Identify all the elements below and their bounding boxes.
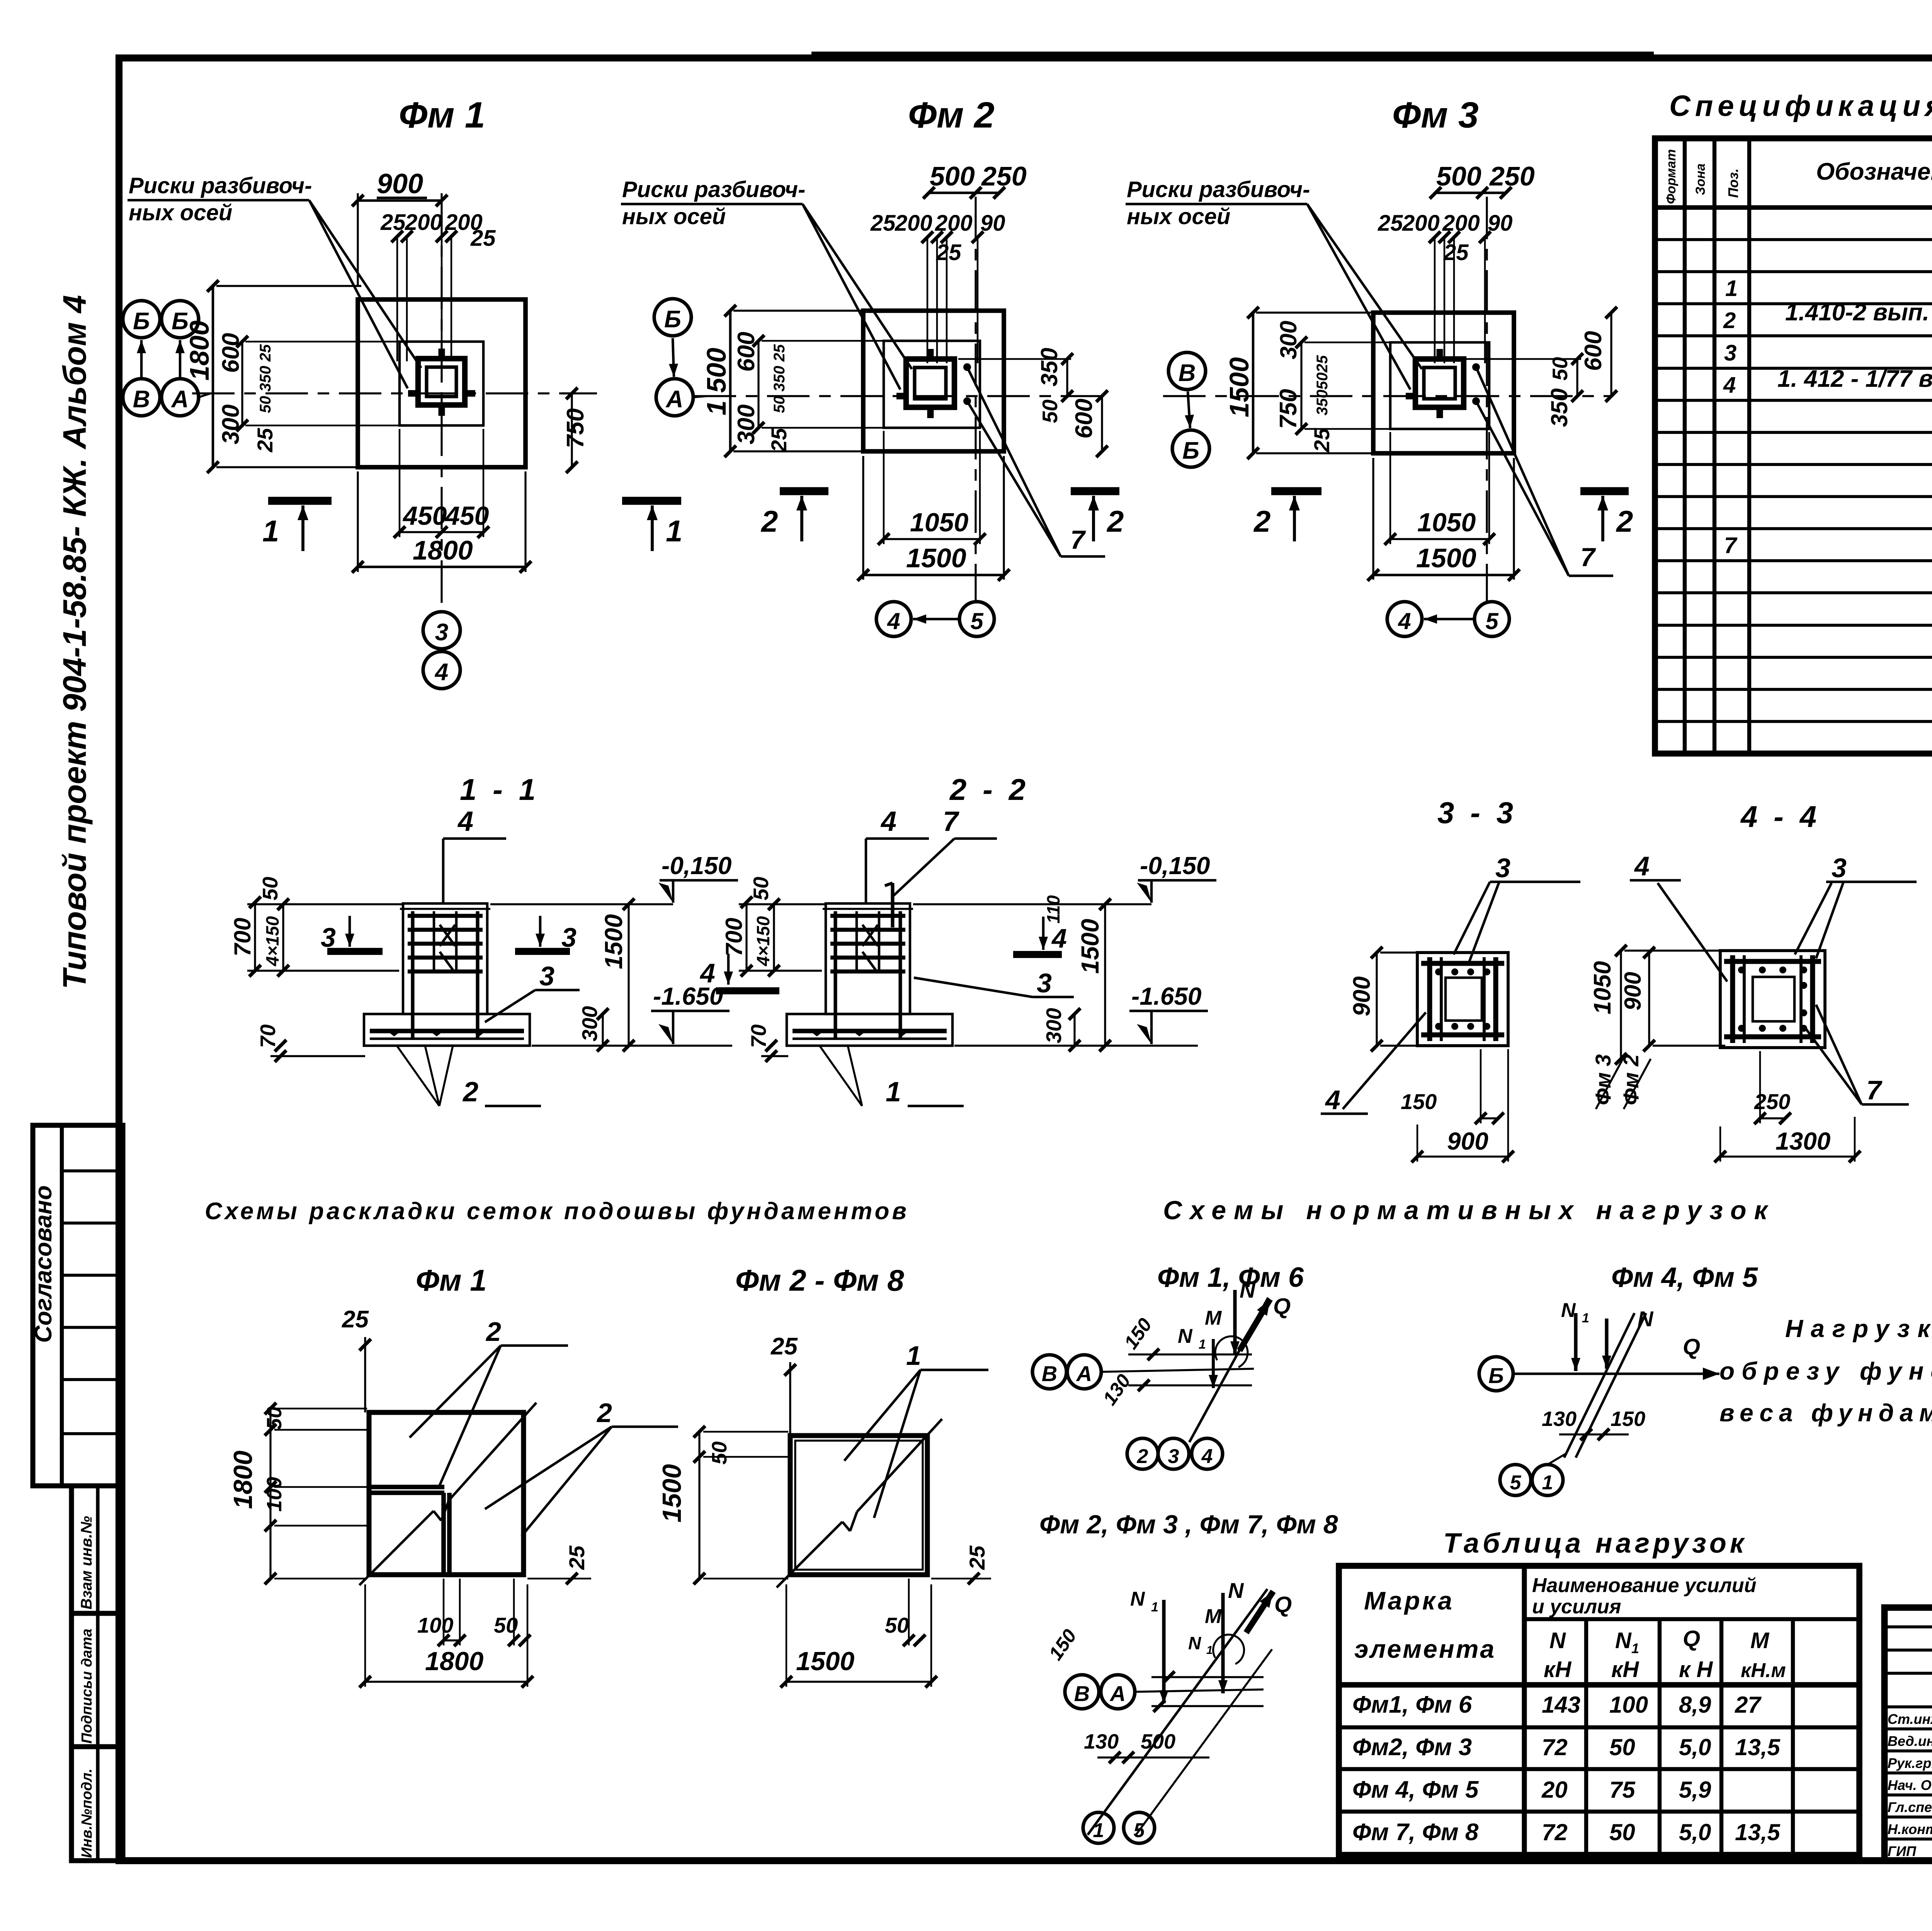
svg-text:-0,150: -0,150 [662,852,731,880]
svg-text:5: 5 [1485,608,1499,634]
svg-text:5,9: 5,9 [1679,1777,1711,1803]
svg-text:3: 3 [1724,340,1736,366]
svg-text:обрезу фундамента без учета: обрезу фундамента без учета нагрузок на … [1719,1357,1932,1385]
svg-text:25: 25 [1443,240,1469,265]
svg-text:7: 7 [1580,543,1596,572]
svg-text:Взам инв.№: Взам инв.№ [78,1516,95,1609]
svg-text:Наименование усилий: Наименование усилий [1532,1574,1756,1597]
svg-text:600: 600 [1071,399,1097,439]
svg-text:Б: Б [664,306,681,333]
svg-text:N: N [1561,1299,1576,1322]
svg-text:50 350 25: 50 350 25 [771,344,788,413]
svg-text:7: 7 [943,806,959,837]
svg-text:1: 1 [1206,1644,1213,1657]
svg-text:Схемы раскладки сеток подо: Схемы раскладки сеток подошвы фундаменто… [205,1198,909,1225]
svg-text:Б: Б [1182,437,1199,464]
svg-text:600: 600 [218,333,244,373]
svg-text:5: 5 [970,608,984,634]
svg-text:Q: Q [1274,1592,1292,1617]
svg-text:1500: 1500 [657,1464,687,1523]
svg-text:90: 90 [980,211,1005,236]
svg-text:M: M [1205,1307,1222,1329]
svg-text:3: 3 [1832,853,1847,883]
svg-text:ных осей: ных осей [129,200,232,225]
svg-text:1050: 1050 [910,508,968,537]
svg-text:250: 250 [1489,161,1535,191]
svg-text:1050: 1050 [1417,508,1476,537]
svg-text:Обозначение: Обозначение [1816,158,1932,185]
svg-text:75: 75 [1609,1777,1636,1803]
svg-text:70: 70 [747,1024,770,1048]
svg-text:1800: 1800 [184,320,214,381]
svg-text:1 - 1: 1 - 1 [460,772,539,806]
svg-text:3: 3 [1037,968,1052,998]
svg-text:900: 900 [377,168,423,199]
svg-text:В: В [1074,1681,1090,1706]
svg-text:Q: Q [1273,1294,1291,1319]
svg-text:к Н: к Н [1679,1657,1713,1682]
svg-text:1: 1 [886,1077,901,1108]
svg-text:А: А [171,386,189,413]
svg-text:Н.контр.: Н.контр. [1888,1821,1932,1837]
svg-text:А: А [1109,1681,1126,1706]
svg-text:Инв.№подл.: Инв.№подл. [79,1769,95,1858]
svg-text:ных осей: ных осей [622,204,726,229]
svg-text:1300: 1300 [1776,1127,1830,1155]
svg-text:900: 900 [1349,977,1375,1016]
svg-text:В: В [133,386,150,413]
svg-text:Б: Б [133,308,150,335]
svg-text:7: 7 [1070,525,1086,555]
svg-text:ных осей: ных осей [1127,204,1230,229]
svg-text:Риски разбивоч-: Риски разбивоч- [622,177,805,202]
svg-text:900: 900 [1447,1127,1488,1155]
svg-text:Вед.инж: Вед.инж [1888,1733,1932,1749]
svg-text:150: 150 [1611,1407,1645,1431]
svg-text:4: 4 [457,806,473,837]
svg-text:13,5: 13,5 [1735,1819,1781,1845]
svg-text:20: 20 [1541,1777,1568,1803]
svg-text:7: 7 [1724,533,1738,558]
svg-text:50: 50 [258,876,282,900]
svg-text:200: 200 [895,211,932,236]
svg-text:4: 4 [1201,1445,1213,1468]
svg-text:Схемы нормативных нагруз: Схемы нормативных нагрузок [1163,1196,1775,1225]
svg-text:1: 1 [666,514,682,548]
svg-text:Нач. ОСП-1: Нач. ОСП-1 [1888,1777,1932,1793]
svg-text:1: 1 [906,1341,921,1371]
svg-text:8,9: 8,9 [1679,1692,1711,1718]
svg-text:Рук.гр.: Рук.гр. [1888,1755,1932,1771]
svg-text:1: 1 [1542,1472,1553,1494]
svg-text:3 - 3: 3 - 3 [1437,796,1517,830]
svg-text:1500: 1500 [1416,543,1476,573]
svg-text:143: 143 [1542,1692,1580,1718]
svg-text:Фм 2, Фм 3 , Фм 7, Фм 8: Фм 2, Фм 3 , Фм 7, Фм 8 [1039,1510,1338,1539]
svg-text:600: 600 [1580,331,1607,371]
svg-text:Подписьи дата: Подписьи дата [79,1629,95,1744]
svg-text:Фм 4, Фм 5: Фм 4, Фм 5 [1352,1776,1479,1803]
svg-text:50: 50 [1609,1734,1635,1760]
svg-text:50: 50 [1038,399,1062,423]
svg-text:M: M [1205,1605,1222,1628]
svg-text:ГИП: ГИП [1888,1843,1917,1859]
svg-text:2: 2 [596,1398,612,1428]
svg-text:25: 25 [936,240,961,265]
svg-text:Ст.инж.: Ст.инж. [1888,1711,1932,1727]
svg-text:веса фундамента и грунта н: веса фундамента и грунта на его уступах. [1719,1399,1932,1427]
svg-text:Фм 1: Фм 1 [399,95,485,136]
svg-text:25: 25 [342,1306,369,1333]
svg-text:4: 4 [699,958,715,988]
svg-text:4: 4 [887,608,900,634]
svg-text:5: 5 [1134,1819,1145,1842]
svg-text:3505025: 3505025 [1314,355,1331,415]
svg-text:Фм 2 - Фм 8: Фм 2 - Фм 8 [735,1263,904,1297]
svg-text:300: 300 [1042,1008,1066,1043]
svg-text:N: N [1240,1278,1256,1302]
svg-text:кН.м: кН.м [1741,1659,1786,1682]
svg-text:Формат: Формат [1664,149,1679,204]
svg-text:Гл.спец.т.о.: Гл.спец.т.о. [1888,1799,1932,1815]
svg-text:50: 50 [885,1613,909,1637]
svg-text:1800: 1800 [228,1451,258,1509]
svg-text:700: 700 [721,918,747,956]
svg-text:700: 700 [230,918,255,956]
svg-text:1050: 1050 [1589,961,1616,1014]
svg-text:25: 25 [770,1333,798,1360]
svg-text:2: 2 [1723,308,1736,333]
svg-text:25: 25 [253,428,277,453]
svg-text:3: 3 [1168,1445,1179,1468]
svg-text:N: N [1549,1628,1566,1653]
svg-text:900: 900 [1620,972,1646,1011]
svg-text:M: M [1750,1628,1770,1653]
svg-text:1800: 1800 [413,535,473,565]
svg-text:1: 1 [1093,1819,1104,1842]
svg-text:2: 2 [462,1077,478,1108]
svg-text:50: 50 [1548,357,1572,381]
svg-text:300: 300 [1276,321,1301,359]
svg-text:25: 25 [965,1545,989,1570]
svg-text:450: 450 [444,501,489,531]
svg-text:3: 3 [1495,853,1510,883]
svg-text:2: 2 [485,1317,501,1347]
svg-text:25: 25 [870,211,896,236]
svg-text:72: 72 [1542,1819,1568,1845]
svg-text:1: 1 [1725,276,1738,301]
svg-text:Q: Q [1683,1626,1700,1651]
svg-text:750: 750 [562,408,589,448]
svg-text:Фм2, Фм 3: Фм2, Фм 3 [1352,1734,1472,1761]
svg-text:4: 4 [1325,1085,1340,1115]
svg-text:13,5: 13,5 [1735,1734,1781,1760]
svg-text:25: 25 [1310,428,1334,453]
svg-text:-1.650: -1.650 [1131,982,1201,1010]
svg-text:Поз.: Поз. [1725,168,1741,198]
svg-text:2: 2 [1253,504,1270,538]
svg-text:500: 500 [930,161,975,191]
svg-text:1500: 1500 [1076,919,1104,974]
svg-text:2: 2 [1616,504,1633,538]
svg-text:50 350 25: 50 350 25 [257,344,274,413]
svg-text:N: N [1188,1633,1201,1653]
svg-text:2: 2 [760,504,778,538]
svg-text:А: А [665,386,684,413]
svg-text:Б: Б [1488,1363,1504,1388]
svg-text:600: 600 [733,332,760,372]
svg-text:-0,150: -0,150 [1140,852,1210,880]
svg-text:450: 450 [402,501,447,531]
svg-text:1: 1 [262,514,279,548]
svg-text:Фм 1, Фм 6: Фм 1, Фм 6 [1157,1262,1304,1293]
svg-text:Нагрузки на фундаменты даны: Нагрузки на фундаменты даны по верхнему [1785,1315,1932,1342]
svg-text:Марка: Марка [1364,1586,1454,1615]
svg-text:110: 110 [1043,895,1063,924]
svg-text:3: 3 [539,961,554,991]
svg-text:Фм 3: Фм 3 [1392,95,1479,136]
svg-text:N: N [1130,1588,1145,1610]
svg-text:N: N [1178,1325,1193,1347]
svg-text:4: 4 [434,659,448,686]
svg-text:350: 350 [1036,348,1062,386]
svg-text:N: N [1228,1578,1244,1603]
svg-text:2 - 2: 2 - 2 [949,772,1029,806]
svg-text:500: 500 [1436,161,1481,191]
svg-text:300: 300 [578,1006,602,1041]
svg-text:2: 2 [1106,504,1124,538]
svg-text:2: 2 [1137,1445,1148,1468]
svg-text:элемента: элемента [1354,1635,1496,1663]
svg-text:В: В [1042,1361,1057,1386]
svg-text:4: 4 [1634,851,1650,881]
svg-text:750: 750 [1275,389,1302,429]
svg-text:1500: 1500 [1224,357,1254,417]
svg-text:25: 25 [1378,211,1403,236]
svg-text:1: 1 [1151,1600,1158,1615]
svg-text:и усилия: и усилия [1532,1596,1621,1618]
svg-text:В: В [1179,360,1196,386]
svg-text:1: 1 [1199,1337,1206,1352]
svg-text:Типовой проект 904-1-58.85-: Типовой проект 904-1-58.85- КЖ. Альбом 4 [56,295,93,989]
svg-text:Фм 1: Фм 1 [416,1263,487,1297]
svg-text:27: 27 [1735,1692,1762,1718]
svg-text:5: 5 [1510,1472,1522,1494]
svg-text:4: 4 [1051,923,1067,953]
svg-text:50: 50 [708,1441,731,1465]
svg-text:3: 3 [435,619,448,646]
svg-text:130: 130 [1084,1730,1119,1753]
svg-text:300: 300 [218,405,244,444]
svg-text:Риски разбивоч-: Риски разбивоч- [129,173,312,198]
svg-text:150: 150 [1401,1089,1437,1114]
svg-text:100: 100 [1609,1692,1648,1718]
svg-text:7: 7 [1866,1075,1883,1105]
svg-text:Спецификация к фундаментам: Спецификация к фундаментам Фм 1- Фм 3 [1669,90,1932,122]
svg-text:1500: 1500 [600,914,628,969]
svg-text:72: 72 [1542,1734,1568,1760]
svg-text:1800: 1800 [425,1647,483,1676]
svg-text:50: 50 [749,876,773,900]
svg-text:Фм1, Фм 6: Фм1, Фм 6 [1352,1691,1472,1718]
svg-text:Фм 2: Фм 2 [908,95,995,136]
svg-text:4: 4 [1723,373,1736,398]
svg-text:200: 200 [1402,211,1440,236]
svg-text:Таблица нагрузок: Таблица нагрузок [1443,1528,1747,1559]
svg-text:250: 250 [981,161,1027,191]
svg-text:Риски разбивоч-: Риски разбивоч- [1127,177,1310,202]
svg-text:1.410-2 вып. 1: 1.410-2 вып. 1 [1785,299,1932,326]
svg-text:1: 1 [1631,1640,1639,1656]
svg-text:Б: Б [172,308,189,335]
svg-text:90: 90 [1488,211,1513,236]
svg-text:Q: Q [1683,1334,1700,1359]
svg-text:25: 25 [767,428,791,453]
svg-text:кН: кН [1611,1657,1639,1682]
svg-text:25: 25 [565,1545,589,1570]
svg-text:1 500: 1 500 [701,348,731,415]
svg-text:300: 300 [733,405,760,444]
svg-text:5,0: 5,0 [1679,1819,1711,1845]
svg-text:1500: 1500 [796,1647,854,1676]
svg-text:5,0: 5,0 [1679,1734,1711,1760]
svg-text:4×150: 4×150 [753,916,773,966]
svg-text:Фм 4, Фм 5: Фм 4, Фм 5 [1611,1262,1758,1293]
svg-text:130: 130 [1542,1407,1577,1431]
svg-text:1: 1 [1582,1311,1589,1325]
svg-text:70: 70 [256,1024,280,1048]
svg-text:А: А [1076,1361,1092,1386]
svg-text:4: 4 [1398,608,1411,634]
svg-text:500: 500 [1141,1730,1175,1753]
svg-text:N: N [1615,1628,1632,1653]
svg-text:25: 25 [470,226,496,251]
svg-text:4 - 4: 4 - 4 [1740,800,1820,834]
svg-text:кН: кН [1544,1657,1571,1682]
svg-text:1. 412 - 1/77 вып. 3: 1. 412 - 1/77 вып. 3 [1777,366,1932,392]
svg-text:350: 350 [1546,388,1572,427]
svg-text:4: 4 [880,806,896,837]
svg-text:50: 50 [1609,1819,1635,1845]
svg-text:Зона: Зона [1693,163,1708,195]
svg-text:Фм 7, Фм 8: Фм 7, Фм 8 [1352,1819,1479,1846]
svg-text:1500: 1500 [906,543,966,573]
svg-text:4×150: 4×150 [262,916,282,966]
